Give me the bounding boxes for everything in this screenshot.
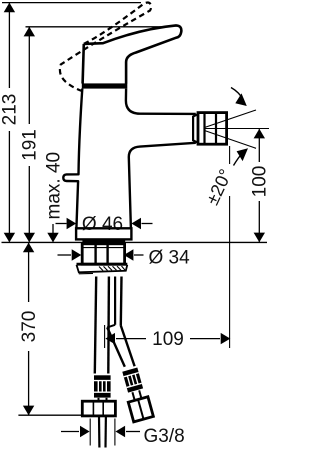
- svg-text:Ø 34: Ø 34: [149, 247, 191, 268]
- head left edge: [83, 44, 84, 84]
- dimension 191: [20, 27, 41, 243]
- counter deck line: [2, 241, 268, 243]
- extension line hose-end (370 reference): [18, 414, 93, 416]
- dimension diameter 46: [56, 214, 153, 235]
- hose B angled walls: [107, 327, 125, 366]
- hose B bend: [107, 325, 115, 328]
- extension line aerator-axis vertical: [229, 146, 231, 164]
- svg-text:100: 100: [250, 166, 269, 198]
- hose A collar: [98, 398, 100, 401]
- dimension 100: [250, 129, 271, 242]
- extension line handle-down (191 reference): [26, 26, 164, 28]
- svg-text:109: 109: [152, 329, 184, 350]
- supply tube walls: [95, 277, 122, 374]
- aerator barrel: [198, 113, 227, 145]
- svg-text:213: 213: [0, 94, 21, 126]
- mounting flange: [77, 264, 128, 274]
- angle arrow lower: [234, 148, 249, 165]
- base plinth: [76, 228, 131, 239]
- shank threaded: [82, 244, 124, 264]
- svg-text:G3/8: G3/8: [144, 426, 185, 447]
- hose A braid: [94, 375, 111, 397]
- angle rays plus-minus 20: [205, 110, 270, 148]
- lever handle solid: [84, 25, 182, 83]
- dimension 370: [18, 243, 93, 416]
- extension line top (213 reference): [2, 2, 141, 4]
- svg-text:370: 370: [19, 311, 40, 343]
- dimension max. 40: [43, 152, 64, 242]
- dimension diameter 34: [58, 247, 191, 268]
- aerator divider lines: [203, 113, 205, 144]
- body left edge with pop-up stub: [63, 89, 82, 229]
- hose A nipple G3/8: [98, 416, 101, 448]
- hose B collar: [132, 392, 134, 400]
- dashed handle raised position: [60, 3, 151, 92]
- dimension 213: [0, 3, 21, 243]
- dimension 109: [105, 146, 231, 350]
- hose B end nut square: [128, 397, 153, 422]
- cartridge band: [82, 83, 128, 88]
- hose B braid and end fitting: [120, 367, 153, 422]
- svg-text:Ø 46: Ø 46: [82, 214, 123, 235]
- aerator collar: [193, 114, 198, 142]
- angle arrow upper: [231, 88, 247, 107]
- dimension G3/8: [61, 419, 185, 448]
- spout bottom edge into lower body right edge: [129, 143, 196, 228]
- svg-text:191: 191: [20, 129, 41, 161]
- hose A nut: [82, 401, 115, 416]
- svg-text:max. 40: max. 40: [43, 152, 64, 220]
- body right edge into spout top: [126, 89, 196, 114]
- base gasket: [82, 239, 125, 243]
